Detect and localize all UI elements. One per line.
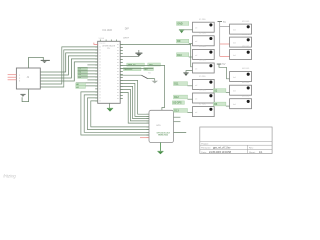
node label D4 — [78, 76, 88, 79]
node label D12 — [174, 95, 188, 99]
wire bundleB row17 to U2 — [120, 92, 149, 123]
wire J1 pin V left stub — [8, 74, 17, 76]
wire IC1 pin1 red stub — [94, 43, 98, 45]
ground G1 — [41, 60, 50, 63]
IC1 left pin ticks — [95, 47, 98, 101]
wire 5V to M1 — [220, 26, 230, 28]
wire IC1 row8 to U2 top — [120, 65, 164, 110]
svg-text:led: led — [233, 30, 236, 32]
wire J1 bottom pin to ground — [22, 89, 29, 102]
wire ground to K1 — [184, 29, 193, 31]
node label D9 — [177, 39, 189, 43]
svg-text:fritzing: fritzing — [3, 173, 16, 178]
node label D6 — [78, 70, 88, 73]
node label D13 — [174, 109, 188, 113]
wire IC1 left row12 stub — [87, 79, 97, 81]
title block frame — [200, 127, 272, 154]
svg-text:K5 REL: K5 REL — [199, 76, 207, 78]
connector J1 — [16, 68, 40, 89]
node label RX2 — [144, 68, 154, 72]
wire bundleA row18 to U2 — [88, 98, 150, 130]
wire IC1 left row9 label wire — [78, 70, 98, 72]
svg-text:K2 REL: K2 REL — [199, 33, 207, 35]
svg-text:D11: D11 — [174, 83, 179, 86]
wire IC1 left row10 label wire — [78, 73, 98, 75]
svg-text:M3 LED: M3 LED — [242, 46, 250, 48]
svg-text:5V: 5V — [223, 21, 226, 24]
wire IC1 left row7 stub — [87, 64, 97, 66]
ground IC1 right — [120, 50, 139, 56]
wire IC1 left row8 label wire — [78, 67, 98, 69]
svg-text:led: led — [233, 77, 236, 79]
node label RX — [123, 68, 141, 72]
node label D10 — [177, 53, 189, 57]
wire label to K3 — [189, 56, 193, 58]
svg-text:D13: D13 — [174, 110, 179, 113]
svg-text:led: led — [233, 55, 236, 57]
svg-text:M4 LED: M4 LED — [242, 68, 250, 70]
node label TX2 — [148, 63, 161, 67]
wire label to M5 — [226, 92, 230, 94]
svg-text:led: led — [233, 91, 236, 93]
node label TX — [127, 63, 145, 67]
svg-text:Project:: Project: — [201, 142, 209, 145]
wire IC1 left A1 label stub — [76, 85, 98, 87]
svg-text:K1 REL: K1 REL — [199, 19, 207, 21]
svg-text:gps_rel_v0.1.fzz: gps_rel_v0.1.fzz — [213, 147, 231, 150]
svg-text:Rev:: Rev: — [249, 148, 254, 150]
svg-text:D12: D12 — [174, 96, 179, 99]
svg-text:NMEA 9600: NMEA 9600 — [158, 134, 168, 137]
svg-text:K7 REL: K7 REL — [199, 103, 207, 105]
svg-text:SER-RX: SER-RX — [124, 69, 133, 71]
svg-text:K6 REL: K6 REL — [199, 90, 207, 92]
svg-text:Date:: Date: — [201, 151, 207, 154]
node label GND1 — [177, 22, 189, 26]
wire staircase row1 — [40, 47, 97, 84]
svg-text:IC1 AVR: IC1 AVR — [103, 29, 113, 32]
svg-text:5V: 5V — [222, 62, 225, 66]
wire 5V to M3 — [220, 55, 230, 57]
wire 5V to M2 — [220, 43, 230, 45]
wire staircase row2 — [40, 50, 97, 87]
wire bundleA row16 to U2 — [81, 92, 149, 135]
svg-text:RX: RX — [145, 69, 149, 71]
wire IC1 left A0 label stub — [76, 82, 98, 84]
IC1 top pin stubs — [100, 40, 116, 42]
wire bundleA row17 to U2 — [84, 95, 149, 132]
node label A0 — [76, 83, 86, 86]
svg-text:M6 LED: M6 LED — [242, 95, 250, 97]
node label D7 — [78, 67, 88, 70]
ground K4 — [186, 71, 193, 73]
wire bundleB row16 to U2 — [120, 89, 149, 121]
ground GND top right — [179, 29, 184, 33]
svg-text:U2 GPS: U2 GPS — [173, 103, 182, 105]
svg-text:7 20 21 8: 7 20 21 8 — [99, 43, 105, 45]
svg-text:AREF: AREF — [123, 37, 129, 40]
power 5V top — [218, 20, 223, 23]
IC1 ATMEGA328 — [98, 41, 121, 103]
svg-text:M5 LED: M5 LED — [242, 82, 250, 84]
wire label to M6 — [226, 105, 230, 107]
wire IC pin to J1 pin4 — [40, 62, 97, 81]
wire U2 right pin TX stub — [174, 116, 181, 118]
svg-text:24.05.2015 19:04:58: 24.05.2015 19:04:58 — [209, 151, 232, 154]
svg-text:M2 LED: M2 LED — [242, 34, 250, 36]
svg-text:led: led — [233, 104, 236, 106]
wire bundleB row14 to U2 — [120, 83, 149, 116]
svg-text:PU: PU — [107, 48, 110, 50]
wire IC pin to J1 pin2 — [40, 56, 97, 75]
ground U2 bottom — [160, 143, 162, 151]
wire label to K5 — [188, 85, 193, 87]
svg-text:K3 REL: K3 REL — [199, 46, 207, 48]
module U2 — [149, 110, 174, 142]
svg-text:S1: S1 — [148, 72, 150, 74]
ground S1 — [148, 79, 155, 81]
wire U2 right pin RX stub — [174, 121, 181, 123]
node label D3 — [213, 102, 226, 106]
wire U2 right lower to east — [174, 132, 187, 134]
wire bundleB row15 to U2 — [120, 86, 149, 118]
wire IC1 row9 label wire — [120, 67, 153, 69]
ground G2 — [20, 94, 25, 97]
wire bundleA row19 to U2 — [91, 101, 149, 127]
wire 5V to M4 — [219, 65, 230, 79]
ground IC1 bottom — [109, 103, 111, 108]
svg-text:Filename:: Filename: — [201, 148, 211, 150]
wire label to K6 — [188, 98, 193, 100]
node label D2 — [213, 89, 226, 93]
svg-text:Sheet:: Sheet: — [249, 151, 256, 154]
node label A1 — [76, 86, 86, 89]
power 5V lower — [217, 63, 222, 66]
wire IC1 row1 to K4 — [120, 44, 192, 66]
wire IC pin to J1 pin1 — [40, 53, 97, 72]
switch S1 — [120, 74, 141, 76]
wire label to K2 — [189, 42, 193, 44]
wire J1 pin S left stub — [8, 79, 17, 81]
svg-text:K4 REL: K4 REL — [199, 60, 207, 62]
svg-text:M1 LED: M1 LED — [242, 21, 250, 23]
svg-text:D10: D10 — [177, 54, 182, 57]
wire J1 pin G left stub — [8, 76, 17, 78]
IC1 right pin ticks — [120, 44, 123, 98]
wire bundleB row13 to U2 — [120, 80, 149, 114]
node label D11 — [174, 82, 188, 86]
wire U2 pin7 red stub — [140, 137, 149, 139]
wire J1 top pin to ground — [29, 57, 44, 68]
svg-text:GPS: GPS — [156, 125, 161, 127]
IC1 inner pin numbers — [99, 44, 118, 101]
U2 left pin ticks — [147, 114, 150, 138]
svg-text:GND: GND — [177, 23, 183, 26]
wire label to K7 — [188, 112, 193, 114]
wire 5V rail — [219, 22, 221, 57]
svg-text:led: led — [233, 43, 236, 45]
wire IC1 left row11 label wire — [78, 76, 98, 78]
wire IC pin to J1 pin3 — [40, 59, 97, 78]
node label D5 — [78, 73, 88, 76]
svg-text:DIP: DIP — [125, 27, 129, 30]
